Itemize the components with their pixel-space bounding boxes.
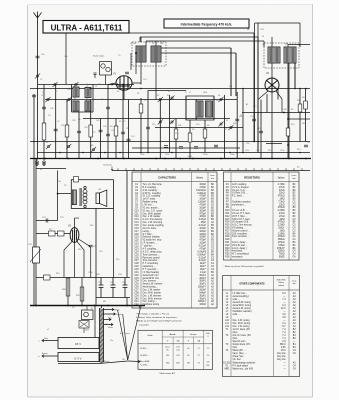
junction bbox=[94, 305, 96, 307]
title box ULTRA A611,T611 bbox=[43, 21, 129, 34]
wire bbox=[294, 63, 296, 89]
wire bbox=[204, 120, 206, 153]
junction bbox=[126, 305, 128, 307]
junction bbox=[164, 158, 166, 160]
antenna bbox=[34, 12, 42, 24]
junction bbox=[236, 152, 238, 154]
wire anode link bbox=[75, 217, 80, 219]
capacitor C14 bbox=[127, 139, 131, 141]
resistor C36 bbox=[65, 125, 69, 137]
switch/trimmer S4a bbox=[66, 97, 71, 102]
wire bbox=[55, 85, 57, 159]
wire left HT spine bbox=[33, 141, 35, 306]
wire x96 spine bbox=[95, 208, 97, 305]
junction bbox=[57, 193, 59, 195]
sheet edge shadow top bbox=[28, 4, 313, 6]
wire V1 grid bbox=[108, 83, 116, 85]
wire switch rail y99 bbox=[45, 99, 237, 101]
wire vert x231 bbox=[230, 48, 232, 96]
wire V1 grid lead bbox=[130, 53, 132, 70]
mains lead Purple bbox=[104, 313, 116, 315]
chassis bus bottom bbox=[30, 305, 145, 307]
junction bbox=[44, 158, 46, 160]
wire battery feed bbox=[94, 306, 96, 338]
wire vert x236 bbox=[235, 53, 237, 96]
valve V3 (output pentode) bbox=[70, 228, 79, 243]
wire battery b bbox=[52, 355, 58, 357]
sheet edge shadow bottom bbox=[28, 396, 313, 398]
volume control R17 bbox=[33, 247, 40, 263]
wire T2 top lead bbox=[288, 44, 310, 46]
arrow a Red bbox=[42, 339, 52, 342]
battery HT 45V bbox=[58, 338, 99, 349]
transformer secondary winding bbox=[80, 186, 87, 207]
ground bbox=[35, 159, 39, 166]
junction bbox=[192, 158, 194, 160]
wire left spine audio bbox=[35, 159, 37, 306]
resistor C38 bbox=[42, 123, 46, 140]
junction bbox=[122, 84, 124, 86]
junction bbox=[67, 305, 69, 307]
junction bbox=[171, 152, 173, 154]
scan grain bbox=[0, 0, 1, 1]
wire bbox=[83, 328, 85, 333]
junction bbox=[271, 88, 273, 90]
capacitor C9 bbox=[106, 107, 110, 109]
wire AVC rail bbox=[37, 152, 310, 154]
switch circle bbox=[84, 312, 89, 317]
junction bbox=[81, 305, 83, 307]
wire coil block right bbox=[92, 85, 94, 113]
wire bbox=[299, 23, 301, 47]
resistor R12 bbox=[304, 101, 308, 109]
junction bbox=[140, 88, 142, 90]
junction bbox=[253, 141, 255, 143]
wire bbox=[213, 96, 215, 120]
battery LT 6-3V bbox=[58, 353, 99, 362]
wire bbox=[287, 45, 289, 48]
coil L7 bbox=[196, 101, 203, 117]
wire bbox=[147, 91, 149, 153]
mains lead Yellow bbox=[104, 323, 114, 325]
V3 fan-out leads bbox=[64, 239, 91, 278]
wire T1-T2 link upper bbox=[140, 36, 258, 38]
wire bbox=[67, 278, 69, 306]
wire bbox=[140, 37, 142, 42]
junction bbox=[127, 84, 129, 86]
wire bbox=[299, 89, 301, 142]
wire bbox=[128, 100, 130, 159]
capacitor C16a bbox=[235, 119, 239, 121]
wire aerial lead bbox=[37, 22, 39, 159]
battery bottom line bbox=[58, 363, 99, 365]
switch/trimmer S8a bbox=[158, 97, 163, 102]
junction bbox=[107, 305, 109, 307]
capacitor C6a bbox=[125, 72, 129, 74]
capacitor C22 on frame top bbox=[74, 177, 79, 183]
wire bbox=[169, 95, 171, 153]
junction bbox=[117, 84, 119, 86]
wire y220 bbox=[36, 220, 58, 222]
capacitor C35 bbox=[106, 134, 110, 136]
junction bbox=[305, 158, 307, 160]
switch/trimmer S11 bbox=[169, 119, 174, 124]
wire bbox=[140, 98, 142, 153]
capacitor C17 bbox=[304, 145, 308, 147]
wire speech coil feed bbox=[58, 193, 72, 195]
switch/trimmer S9a bbox=[169, 95, 174, 100]
wire T2 to V2 anode bbox=[271, 63, 273, 78]
resistor R6 bbox=[203, 129, 207, 138]
IF note box bbox=[164, 19, 249, 28]
wire bbox=[230, 48, 232, 96]
wire terminal strip rail bbox=[112, 170, 310, 172]
junction bbox=[305, 88, 307, 90]
wire bbox=[139, 37, 141, 42]
rectifier MR1 bbox=[79, 321, 89, 329]
wire V2 cathode drop bbox=[271, 92, 273, 159]
capacitor C13 bbox=[194, 147, 198, 149]
terminal strip ticks bbox=[118, 168, 302, 170]
junction bbox=[140, 152, 142, 154]
wire y119 bbox=[288, 118, 310, 120]
wire V1 anode to T1 bbox=[132, 82, 141, 84]
wire bbox=[126, 298, 128, 306]
resistor R8 bbox=[188, 133, 192, 142]
wire bbox=[159, 100, 161, 159]
switch/trimmer S1a bbox=[52, 82, 57, 87]
wire V3 anode bbox=[74, 218, 76, 228]
junction bbox=[67, 158, 69, 160]
wire bbox=[257, 37, 259, 153]
wire bbox=[260, 100, 262, 159]
junction bbox=[220, 158, 222, 160]
sheet edge shadow right bbox=[312, 4, 314, 397]
wire vert x258 bbox=[257, 23, 259, 153]
wire y90 bbox=[148, 90, 186, 92]
junction bbox=[287, 118, 289, 120]
wire black off bbox=[99, 361, 128, 364]
junction bbox=[123, 158, 125, 160]
wire bbox=[155, 41, 157, 46]
resistor R20 bbox=[66, 278, 70, 296]
valve voltage table bbox=[138, 330, 212, 369]
junction bbox=[299, 88, 301, 90]
wire bbox=[175, 119, 177, 159]
coil L2 bbox=[73, 87, 79, 97]
wire V1 cathode bbox=[123, 90, 125, 100]
mains lead White bbox=[104, 308, 115, 310]
wire T1 primary lead bbox=[140, 62, 142, 85]
wire T2 sec lead bbox=[288, 63, 290, 159]
wire T1 sec to coil unit 2 bbox=[161, 52, 236, 54]
IF transformer T2 enclosure bbox=[264, 43, 299, 68]
wire grid rail y84 bbox=[38, 84, 135, 86]
wire bbox=[263, 41, 265, 47]
ground bbox=[42, 159, 46, 166]
switch/trimmer S7a bbox=[91, 147, 96, 152]
coil L9 bbox=[268, 47, 280, 63]
wire coil block left bbox=[71, 85, 73, 113]
in-line resistor R18 bbox=[58, 231, 65, 236]
switch/trimmer S13a bbox=[218, 121, 223, 126]
capacitor C2 bbox=[42, 107, 46, 109]
capacitor C15a bbox=[214, 145, 218, 147]
capacitor C10 bbox=[146, 127, 150, 129]
junction bbox=[97, 158, 99, 160]
wire bbox=[66, 100, 68, 159]
arrow b Brown bbox=[42, 355, 52, 358]
resistor R5 bbox=[139, 104, 143, 113]
junction bbox=[257, 141, 259, 143]
output transformer T3 + speaker frame bbox=[71, 180, 113, 209]
wire bbox=[294, 63, 296, 89]
wire bbox=[236, 92, 238, 159]
wire bbox=[185, 96, 187, 120]
junction bbox=[33, 141, 35, 143]
IF transformer T1 enclosure bbox=[132, 42, 166, 66]
wire V1 grid lead 2 bbox=[135, 53, 137, 74]
wire T1-T2 link lower bbox=[146, 40, 264, 42]
sheet edge shadow left bbox=[27, 5, 29, 397]
capacitor C33 bbox=[77, 131, 81, 133]
switch/trimmer S10 bbox=[158, 119, 163, 124]
coil L6 bbox=[151, 46, 161, 62]
wire bbox=[122, 85, 124, 159]
wire bbox=[100, 119, 102, 159]
coil T3 primary bbox=[72, 190, 76, 205]
capacitor C8 bbox=[121, 132, 125, 134]
wire x113 drop bbox=[112, 208, 114, 277]
coil L1 bbox=[85, 101, 91, 111]
wire bbox=[224, 95, 226, 159]
coil L4 bbox=[73, 101, 79, 111]
wire bbox=[107, 85, 109, 159]
capacitor C18 bbox=[252, 119, 256, 121]
wire bbox=[266, 94, 268, 113]
wire bbox=[43, 85, 45, 159]
wire bbox=[235, 53, 237, 96]
loudspeaker bbox=[96, 190, 107, 207]
junction bbox=[287, 144, 289, 146]
oscillator coil unit bbox=[186, 96, 214, 120]
switch/trimmer S2a bbox=[73, 82, 78, 87]
wire T1 secondary lead bbox=[155, 62, 157, 100]
wire y112 rail bbox=[242, 112, 310, 114]
junction bbox=[242, 152, 244, 154]
valve V2 (IF amp/detector) bbox=[265, 78, 279, 92]
junction bbox=[271, 158, 273, 160]
junction bbox=[299, 152, 301, 154]
switch unit S11 bbox=[82, 310, 94, 320]
wire bbox=[101, 306, 103, 309]
resistor R9 bbox=[298, 104, 302, 112]
wire bbox=[305, 89, 307, 142]
wire bbox=[145, 41, 147, 46]
resistor R7 bbox=[174, 129, 178, 139]
junction bbox=[179, 158, 181, 160]
coil L8 bbox=[206, 101, 213, 117]
junction bbox=[135, 52, 137, 54]
wire bbox=[271, 37, 273, 47]
capacitor C12 bbox=[179, 147, 183, 149]
wire vert x254 bbox=[254, 23, 256, 142]
junction bbox=[59, 152, 61, 154]
other components table bbox=[223, 276, 300, 377]
wire bbox=[86, 306, 88, 311]
resistor R22 bbox=[80, 287, 84, 301]
wire rail y127 bbox=[155, 127, 243, 129]
wire bbox=[195, 100, 197, 121]
wire top rail 1 bbox=[66, 32, 254, 34]
capacitor C19 bbox=[259, 131, 263, 133]
wire drop x66 bbox=[65, 33, 67, 84]
V2 diode leads bbox=[258, 91, 282, 113]
wire bbox=[78, 112, 80, 159]
wire HT rail y88 bbox=[30, 88, 310, 90]
capacitor C29 bbox=[111, 278, 116, 298]
switch/trimmer S14a bbox=[228, 125, 233, 130]
wire rail y118 bbox=[83, 118, 230, 120]
wire x57 drop bbox=[57, 171, 59, 221]
capacitor C1 bbox=[32, 95, 36, 97]
wire V3 grid feed bbox=[36, 233, 70, 235]
junction bbox=[283, 112, 285, 114]
wire y143 bbox=[266, 143, 282, 145]
wire y297 bbox=[96, 297, 130, 299]
wire bbox=[253, 33, 255, 142]
junction bbox=[288, 158, 290, 160]
junction bbox=[104, 152, 106, 154]
wire y277 right bbox=[96, 277, 130, 279]
wire bbox=[277, 89, 279, 100]
capacitor C21 bbox=[46, 219, 48, 223]
capacitor C30 bbox=[123, 278, 128, 298]
wire y277 bbox=[36, 277, 96, 279]
junction bbox=[147, 152, 149, 154]
wire rail y148 bbox=[132, 147, 240, 149]
wire x127 spine bbox=[126, 171, 128, 278]
resistor C41 bbox=[89, 125, 93, 137]
mains lead Red2 bbox=[104, 318, 112, 320]
resistor R13 bbox=[286, 128, 290, 136]
wire bbox=[98, 343, 101, 345]
capacitor C11 bbox=[164, 146, 168, 148]
coil L3 bbox=[85, 88, 91, 98]
wire bbox=[90, 100, 92, 159]
junction bbox=[155, 158, 157, 160]
capacitor C1 bbox=[36, 56, 40, 58]
capacitor C28 bbox=[99, 278, 104, 298]
junction bbox=[111, 84, 113, 86]
wire HT rail y141 bbox=[30, 141, 310, 143]
junction bbox=[119, 152, 121, 154]
wire bbox=[189, 120, 191, 159]
wire battery a bbox=[52, 340, 58, 342]
junction bbox=[35, 305, 37, 307]
capacitor C32 bbox=[54, 129, 58, 131]
wire bbox=[115, 119, 117, 159]
capacitor C34 bbox=[99, 130, 103, 132]
resistor R2 bbox=[114, 126, 118, 136]
switch/trimmer S12a bbox=[218, 97, 223, 102]
wire bbox=[81, 278, 83, 306]
wire coil block bottom bbox=[72, 111, 94, 113]
coil L10 bbox=[284, 47, 296, 63]
wire bbox=[287, 63, 289, 159]
junction bbox=[242, 88, 244, 90]
junction bbox=[294, 88, 296, 90]
A.C. mains fan bbox=[118, 306, 141, 360]
in-line resistor R19 bbox=[44, 275, 51, 280]
chassis bus bbox=[30, 158, 311, 160]
in-line resistor R16 bbox=[49, 231, 56, 236]
mains transformer T4 winding bbox=[100, 308, 104, 363]
junction bbox=[89, 88, 91, 90]
switch/trimmer S3a bbox=[45, 97, 50, 102]
wire left col bbox=[33, 94, 35, 141]
coil L5 bbox=[136, 46, 146, 62]
resistors table bbox=[224, 172, 300, 260]
junction bbox=[229, 152, 231, 154]
switch/trimmer S1 bbox=[35, 73, 40, 78]
capacitor C26 bbox=[89, 245, 93, 247]
wire bbox=[242, 89, 244, 153]
capacitors table bbox=[132, 172, 217, 308]
wire y168 stub bbox=[36, 168, 66, 170]
wire dial lamp feed bbox=[255, 22, 300, 24]
switch/trimmer S5a bbox=[46, 144, 51, 149]
switch/trimmer S6a bbox=[66, 144, 71, 149]
junction bbox=[82, 152, 84, 154]
wire T1 sec to coil unit bbox=[161, 47, 231, 49]
valve V1 (frequency changer) bbox=[116, 76, 132, 90]
